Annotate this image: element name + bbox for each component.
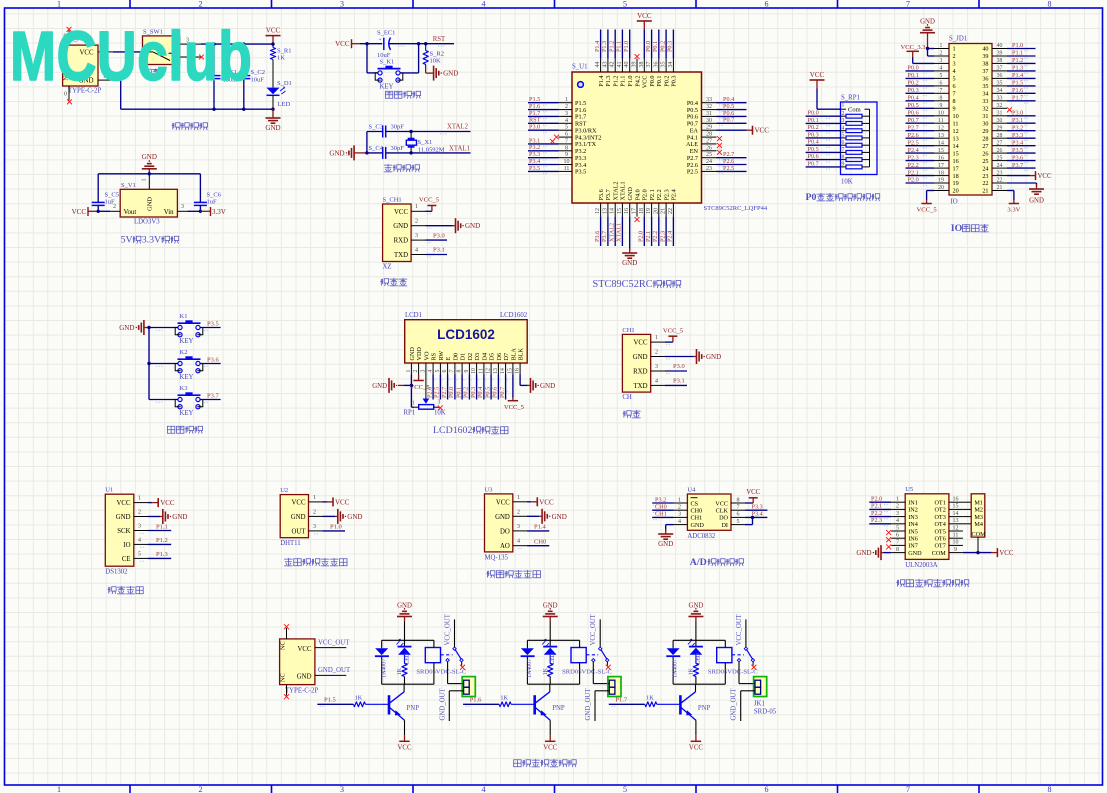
wire JD1 P0.6: [906, 115, 935, 117]
pin 4 TXD CH1: [411, 254, 425, 256]
pin 3 U5 left: [891, 516, 905, 518]
svg-text:10: 10: [471, 368, 477, 374]
pin 6 DO U4: [731, 516, 745, 518]
svg-text:D6: D6: [496, 353, 503, 361]
power port VCC_5 serial: [665, 341, 673, 343]
pin 6 U5 left: [891, 537, 905, 539]
power port VCC_5 download: [426, 210, 432, 212]
wire NC contact to connector P1.7: [738, 662, 740, 684]
pin 9 U5 right: [949, 552, 963, 554]
pin 32 JD1 right: [992, 107, 1007, 109]
wire JD1 P0.4: [906, 100, 935, 102]
svg-text:P0.2: P0.2: [663, 76, 670, 87]
svg-text:XTAL1: XTAL1: [616, 223, 623, 242]
wire U1 bottom P2.0: [643, 217, 645, 246]
svg-text:5: 5: [842, 133, 845, 139]
svg-text:OT6: OT6: [934, 536, 945, 543]
svg-text:P3.5: P3.5: [575, 169, 586, 176]
svg-text:VDD: VDD: [416, 347, 423, 361]
caption download port: [380, 279, 382, 285]
svg-text:11: 11: [953, 533, 959, 539]
svg-text:40: 40: [997, 43, 1003, 49]
svg-text:7: 7: [953, 91, 956, 98]
svg-text:30: 30: [706, 118, 712, 124]
svg-text:D5: D5: [489, 353, 496, 361]
svg-text:CH1: CH1: [655, 511, 667, 518]
svg-text:8: 8: [896, 547, 899, 553]
svg-text:S_RP1: S_RP1: [841, 95, 860, 102]
svg-text:K1: K1: [180, 313, 188, 320]
svg-text:P2.7: P2.7: [441, 387, 448, 398]
svg-text:DI: DI: [721, 522, 728, 529]
wire TXD to P3.1: [426, 254, 448, 256]
wire U1 top P0.1: [658, 30, 660, 59]
svg-text:VCC_5: VCC_5: [917, 207, 938, 214]
wire U1 bottom P2.3: [665, 217, 667, 246]
wire OT4 to motor: [963, 523, 971, 525]
svg-text:7: 7: [906, 785, 910, 793]
wire JD1 P1.2: [1007, 62, 1036, 64]
pin 3 RXD serial: [651, 370, 665, 372]
pin 13 JD1 left: [934, 137, 949, 139]
svg-text:U4: U4: [687, 486, 696, 493]
connector S_CH1 download port: [383, 204, 412, 262]
svg-text:13: 13: [953, 135, 959, 142]
svg-text:13: 13: [953, 518, 959, 524]
svg-text:31: 31: [706, 111, 712, 117]
svg-text:P2.2: P2.2: [656, 189, 663, 200]
svg-text:P2.0: P2.0: [871, 496, 882, 503]
svg-text:P0.7: P0.7: [499, 387, 506, 398]
svg-text:D1: D1: [460, 353, 467, 361]
svg-text:16: 16: [938, 155, 944, 161]
pin 34 JD1 right: [992, 92, 1007, 94]
wire U1 top P1.1: [621, 30, 623, 59]
svg-text:K3: K3: [180, 385, 188, 392]
svg-text:26: 26: [706, 145, 712, 151]
svg-text:S_K1: S_K1: [380, 58, 395, 65]
ground keys: [143, 320, 145, 335]
wire U1 left RST: [528, 122, 559, 124]
svg-text:3.3V: 3.3V: [142, 235, 161, 246]
svg-text:6: 6: [765, 0, 769, 9]
ground LCD left: [388, 378, 390, 393]
svg-text:P3.5: P3.5: [529, 165, 540, 172]
svg-text:GND: GND: [856, 549, 871, 557]
svg-text:1N4007: 1N4007: [381, 659, 387, 678]
svg-text:P1.4: P1.4: [534, 524, 546, 531]
caption keys: [167, 425, 174, 427]
svg-text:VCC_OUT: VCC_OUT: [318, 639, 350, 646]
wire COM motor down: [977, 537, 979, 553]
wire GND_OUT P1.6: [595, 690, 609, 692]
wire U1 right P0.4: [717, 102, 747, 104]
pin 2 Vout: [110, 210, 120, 212]
wire U1 top P1.2: [614, 30, 616, 59]
svg-text:7: 7: [896, 540, 899, 546]
svg-text:XTAL2: XTAL2: [613, 181, 620, 200]
sensor U3 MQ-135: [485, 494, 513, 552]
pin1 marker dot: [578, 82, 584, 88]
svg-text:12: 12: [938, 125, 944, 131]
LED relay P1.5: [404, 640, 406, 646]
wire LDO top rail: [98, 173, 200, 175]
pushbutton K3: [178, 394, 201, 396]
svg-text:21: 21: [982, 188, 988, 195]
svg-text:26: 26: [997, 148, 1003, 154]
wire JD1 P3.3: [1007, 137, 1036, 139]
wire pin20 to VCC_5: [927, 190, 934, 192]
svg-text:D4: D4: [481, 353, 488, 361]
svg-text:KEY: KEY: [180, 410, 194, 417]
wire LCD D2 to P0.2: [468, 375, 470, 400]
svg-text:5: 5: [737, 519, 740, 525]
svg-text:P3.7: P3.7: [207, 392, 219, 399]
wire pin1 to RP1 pot: [410, 385, 412, 407]
svg-text:KEY: KEY: [180, 374, 194, 381]
svg-text:5V: 5V: [121, 235, 133, 246]
svg-text:GND: GND: [116, 514, 131, 521]
svg-text:3.3V: 3.3V: [212, 208, 226, 216]
net label P1.6: [463, 703, 499, 705]
svg-text:8: 8: [457, 369, 463, 372]
pin 2 GND J1: [98, 79, 113, 81]
svg-text:16: 16: [953, 497, 959, 503]
svg-text:23: 23: [997, 170, 1003, 176]
wire pin9 to VCC: [963, 552, 992, 554]
svg-text:P1.0: P1.0: [330, 524, 342, 531]
wire LCD D3 to P0.3: [476, 375, 478, 400]
svg-text:XTAL1: XTAL1: [620, 181, 627, 200]
svg-text:P2.6: P2.6: [908, 132, 919, 139]
svg-text:VCC: VCC: [117, 500, 131, 507]
svg-text:CH0: CH0: [655, 504, 667, 511]
svg-text:8: 8: [1048, 785, 1052, 793]
svg-text:P3.6: P3.6: [594, 231, 601, 242]
svg-text:19: 19: [646, 208, 652, 214]
svg-text:GND: GND: [172, 513, 187, 521]
svg-text:28: 28: [706, 132, 712, 138]
wire JD1 P1.0: [1007, 48, 1036, 50]
wire JD1 P3.2: [1007, 130, 1036, 132]
resistor S_R1 1K: [272, 44, 274, 47]
pushbutton S_K1: [378, 68, 401, 70]
wire EC1 to RST node: [390, 43, 455, 45]
wire RP1 P0.6: [806, 159, 841, 161]
svg-text:VCC: VCC: [1038, 173, 1052, 180]
svg-text:2: 2: [413, 369, 419, 372]
svg-text:2: 2: [940, 51, 943, 57]
svg-text:34: 34: [997, 88, 1003, 94]
svg-text:P0.2: P0.2: [659, 41, 666, 52]
wire pin23 to VCC port: [1007, 175, 1030, 177]
wire U1 right P2.6: [717, 164, 747, 166]
wire U1 bottom P2.2: [658, 217, 660, 246]
svg-text:1: 1: [565, 97, 568, 103]
svg-text:6: 6: [737, 512, 740, 518]
svg-text:21: 21: [997, 185, 1003, 191]
svg-text:GND: GND: [540, 382, 555, 390]
wire VCC_3.3 to pin 3: [912, 58, 914, 64]
svg-text:11: 11: [953, 120, 959, 127]
svg-text:P0.7: P0.7: [723, 117, 734, 124]
svg-text:GND: GND: [920, 19, 935, 26]
svg-text:P1.2: P1.2: [156, 537, 168, 544]
svg-text:5: 5: [623, 0, 627, 9]
wire BLA to VCC_5: [512, 375, 514, 398]
svg-text:P2.5: P2.5: [908, 139, 919, 146]
svg-text:32: 32: [982, 106, 988, 113]
svg-text:33: 33: [997, 96, 1003, 102]
svg-text:P2.1: P2.1: [645, 231, 652, 242]
svg-text:P1.7: P1.7: [615, 697, 627, 704]
relay coil P1.5: [425, 648, 440, 663]
svg-text:19: 19: [938, 178, 944, 184]
svg-text:GND_OUT: GND_OUT: [731, 688, 738, 721]
svg-text:VCC_OUT: VCC_OUT: [445, 613, 452, 645]
wire K1 to P3.5: [201, 327, 221, 329]
svg-text:P3.6: P3.6: [207, 356, 219, 363]
caption relay control: [514, 759, 521, 761]
svg-text:VCC: VCC: [496, 499, 510, 506]
svg-text:1uF: 1uF: [207, 199, 218, 206]
svg-text:3: 3: [438, 399, 441, 405]
svg-text:Com: Com: [848, 107, 861, 114]
svg-text:1K: 1K: [646, 695, 654, 702]
svg-text:8: 8: [953, 98, 956, 105]
svg-text:P1.1: P1.1: [620, 76, 627, 87]
wire relay top P1.6: [549, 622, 551, 641]
svg-text:10uF: 10uF: [251, 77, 265, 84]
pin 37 JD1 right: [992, 70, 1007, 72]
svg-text:P0.4: P0.4: [908, 95, 919, 102]
wire crystal gnd bus: [366, 132, 368, 153]
svg-text:VCC: VCC: [398, 745, 412, 752]
wire U4 P3.4: [745, 516, 767, 518]
svg-text:6: 6: [565, 132, 568, 138]
svg-text:S_U1: S_U1: [572, 64, 588, 71]
wire DS1302 P1.3: [148, 557, 171, 559]
resistor S_R2 10K: [425, 44, 427, 51]
svg-text:3: 3: [940, 58, 943, 64]
svg-text:GND: GND: [658, 540, 673, 548]
svg-text:VCC_OUT: VCC_OUT: [590, 613, 597, 645]
svg-text:8: 8: [842, 154, 845, 160]
svg-text:P1.2: P1.2: [613, 76, 620, 87]
wire LCD D1 to P0.1: [461, 375, 463, 400]
wire LCD D6 to P0.6: [497, 375, 499, 400]
svg-text:OT4: OT4: [934, 521, 945, 528]
wire LCD E to P2.7: [447, 375, 449, 400]
pin 10 U5 right: [949, 544, 963, 546]
wire VCC to EC1: [360, 43, 382, 45]
svg-text:S_C3: S_C3: [369, 124, 383, 131]
wire LCD D0 to P0.0: [454, 375, 456, 400]
pin 1 VCC DS1302: [134, 502, 148, 504]
svg-text:GND: GND: [329, 149, 344, 157]
caption power circuit: [172, 123, 174, 129]
svg-text:IN5: IN5: [908, 528, 918, 535]
svg-text:P2.1: P2.1: [871, 503, 882, 510]
wire JD1 P2.5: [906, 145, 935, 147]
svg-text:31: 31: [982, 113, 988, 120]
svg-text:30pF: 30pF: [391, 145, 405, 152]
svg-text:RS: RS: [431, 352, 438, 360]
svg-text:S_C5: S_C5: [105, 192, 119, 199]
svg-text:P3.2: P3.2: [1012, 124, 1023, 131]
svg-text:42: 42: [610, 62, 616, 68]
svg-text:24: 24: [997, 163, 1003, 169]
svg-text:3: 3: [340, 785, 344, 793]
wire U4 P3.2: [652, 502, 673, 504]
svg-text:30: 30: [997, 118, 1003, 124]
svg-text:1: 1: [842, 103, 845, 109]
svg-text:RST: RST: [433, 36, 446, 43]
capacitor S_C3 30pF: [367, 131, 383, 133]
svg-text:VCC: VCC: [746, 489, 760, 496]
wire LCD D4 to P0.4: [483, 375, 485, 400]
wire U1 left P3.0: [528, 129, 559, 131]
svg-text:Vout: Vout: [124, 209, 137, 216]
svg-text:P2.3: P2.3: [659, 231, 666, 242]
wire keys gnd bus: [148, 328, 150, 400]
svg-text:STC89C52RC_LQFP44: STC89C52RC_LQFP44: [704, 205, 768, 212]
svg-text:P0.4: P0.4: [477, 387, 484, 398]
svg-text:LED: LED: [278, 101, 291, 108]
svg-text:S_V1: S_V1: [121, 182, 136, 189]
svg-text:NC: NC: [280, 673, 287, 682]
svg-text:SRD05VDC-SL-C: SRD05VDC-SL-C: [562, 668, 612, 675]
pin 2 GND DS1302: [134, 516, 148, 518]
svg-text:27: 27: [997, 140, 1003, 146]
pin 1 VCC serial: [651, 341, 665, 343]
wire C3 to XTAL2: [386, 131, 471, 133]
wire U1 bottom P3.7: [607, 217, 609, 246]
svg-text:40: 40: [624, 62, 630, 68]
resistor network S_RP1: [841, 102, 878, 175]
pin 23 JD1 right: [992, 175, 1007, 177]
pin 11 JD1 left: [934, 122, 949, 124]
svg-text:4: 4: [953, 68, 956, 75]
svg-text:DO: DO: [719, 515, 728, 522]
svg-text:GND: GND: [691, 522, 705, 529]
svg-text:VCC: VCC: [543, 745, 557, 752]
power port VCC DHT11: [327, 501, 333, 503]
svg-text:10K: 10K: [434, 410, 446, 417]
wire U1 right P0.7: [717, 122, 747, 124]
pin 12 JD1 left: [934, 130, 949, 132]
svg-text:M4: M4: [974, 521, 983, 528]
svg-text:XTAL1: XTAL1: [449, 145, 470, 152]
pin 15 U5 right: [949, 508, 963, 510]
svg-text:GND: GND: [1029, 198, 1044, 205]
logo MCUclub: [10, 18, 252, 96]
svg-text:1: 1: [953, 46, 956, 53]
svg-text:OUT: OUT: [292, 528, 307, 535]
wire JD1 P2.1: [906, 175, 935, 177]
svg-text:30pF: 30pF: [391, 124, 405, 131]
svg-text:P1.5: P1.5: [324, 697, 336, 704]
wire pin8 to VCC port: [745, 502, 753, 504]
svg-text:VCC: VCC: [160, 499, 175, 507]
svg-text:29: 29: [997, 125, 1003, 131]
svg-text:GND: GND: [142, 153, 157, 161]
svg-text:STC89C52RC: STC89C52RC: [593, 279, 653, 290]
ground relay P1.5: [404, 617, 406, 622]
svg-text:GND: GND: [706, 353, 721, 361]
svg-text:P3.1: P3.1: [1012, 117, 1023, 124]
svg-text:P3.7: P3.7: [601, 231, 608, 242]
svg-text:35: 35: [997, 81, 1003, 87]
svg-text:29: 29: [706, 125, 712, 131]
svg-text:35: 35: [982, 83, 988, 90]
svg-text:P2.1: P2.1: [908, 169, 919, 176]
svg-text:RXD: RXD: [394, 238, 408, 245]
svg-text:9: 9: [565, 152, 568, 158]
pin 35 JD1 right: [992, 85, 1007, 87]
wire U5 P2.1: [869, 508, 891, 510]
pin 3 RXD CH1: [411, 239, 425, 241]
wire relay top P1.5: [404, 622, 406, 641]
svg-text:26: 26: [982, 150, 988, 157]
wire JD1 P3.7: [1007, 167, 1036, 169]
svg-text:OT1: OT1: [934, 500, 945, 507]
wire J1 GND down to return rail: [113, 79, 121, 81]
svg-text:P2.2: P2.2: [908, 162, 919, 169]
svg-text:GND: GND: [147, 197, 154, 211]
svg-text:2: 2: [199, 0, 203, 9]
svg-text:VCC: VCC: [637, 12, 652, 20]
wire U1 left P1.5: [528, 102, 559, 104]
relay switch P1.6: [586, 654, 598, 656]
svg-text:36: 36: [997, 73, 1003, 79]
svg-text:DO: DO: [500, 528, 510, 535]
svg-text:1K: 1K: [277, 55, 285, 62]
svg-text:GND_OUT: GND_OUT: [585, 688, 592, 721]
svg-text:GND: GND: [297, 674, 312, 681]
connector S_JD1 IO expansion: [949, 44, 992, 196]
pin 14 JD1 left: [934, 145, 949, 147]
svg-text:CH0: CH0: [691, 508, 703, 515]
svg-text:3.3V: 3.3V: [1007, 207, 1020, 214]
svg-text:1: 1: [415, 204, 418, 210]
wire NC contact to connector P1.5: [447, 662, 449, 684]
svg-text:2: 2: [517, 509, 520, 515]
svg-text:GND: GND: [443, 70, 458, 78]
svg-text:U3: U3: [485, 486, 493, 493]
driver U5 ULN2003A: [905, 494, 949, 560]
wire U1 bottom P2.4: [672, 217, 674, 246]
svg-text:37: 37: [982, 68, 988, 75]
svg-text:P2.2: P2.2: [871, 510, 882, 517]
potentiometer RP1 10K: [423, 399, 430, 404]
pin 1 U4 left: [674, 502, 688, 504]
resistor 1K base P1.6: [499, 702, 511, 707]
pin 31 JD1 right: [992, 115, 1007, 117]
svg-text:D3: D3: [474, 353, 481, 361]
svg-text:P1.3: P1.3: [601, 41, 608, 52]
svg-text:P0.5: P0.5: [808, 146, 819, 153]
resistor 1K LED P1.5: [402, 664, 407, 677]
svg-text:12: 12: [595, 208, 601, 214]
svg-text:P0.1: P0.1: [455, 387, 462, 398]
svg-text:LCD1602: LCD1602: [500, 312, 528, 319]
svg-text:KEY: KEY: [380, 83, 394, 90]
svg-text:18: 18: [639, 208, 645, 214]
svg-text:PNP: PNP: [552, 705, 565, 712]
svg-text:4: 4: [655, 378, 658, 384]
svg-text:19: 19: [953, 180, 959, 187]
